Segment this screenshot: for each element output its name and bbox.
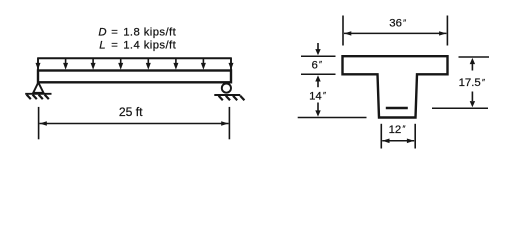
- span dimension 25 ft: [39, 107, 230, 139]
- dimension 12in (bottom): [381, 124, 415, 149]
- load arrow 5: [146, 58, 151, 70]
- dimension 36in (top): [343, 16, 447, 46]
- load arrow 2: [63, 58, 68, 70]
- dimension 17.5in (right): [432, 57, 489, 108]
- svg-text:25 ft: 25 ft: [119, 105, 143, 119]
- load arrow 8 (right end): [229, 58, 234, 70]
- T-beam outline: [343, 56, 448, 117]
- wire load line: [37, 57, 232, 59]
- svg-text:L = 1.4 kips/ft: L = 1.4 kips/ft: [99, 40, 176, 52]
- dimension 6in (left top): [301, 43, 336, 87]
- load arrow 1 (left end): [36, 58, 41, 70]
- rebar line: [386, 107, 408, 109]
- load arrow 7: [201, 58, 206, 70]
- beam: [38, 71, 231, 83]
- pin support (left): [25, 82, 51, 99]
- load arrow 4: [118, 58, 123, 70]
- load arrow 3: [91, 58, 96, 70]
- load arrow 6: [173, 58, 178, 70]
- roller support (right): [214, 84, 244, 101]
- dimension 14in (left bottom): [298, 103, 367, 118]
